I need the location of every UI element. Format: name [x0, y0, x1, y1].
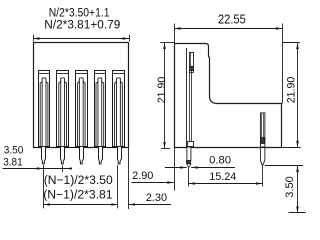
solder pin 3 (front view)	[80, 147, 84, 164]
svg-text:N/2*3.81+0.79: N/2*3.81+0.79	[44, 18, 120, 32]
dimension line (N-1)/2	[43, 204, 117, 206]
extension tick right	[129, 35, 131, 41]
svg-text:2.30: 2.30	[146, 192, 167, 204]
solder pin 1 (front view)	[42, 147, 46, 164]
bottom tick	[282, 147, 301, 149]
extension line body right edge	[128, 148, 130, 210]
right wave-solder pin (side view)	[260, 113, 265, 147]
dimension line	[297, 43, 299, 148]
svg-text:3.50: 3.50	[284, 176, 296, 197]
pole slot 4	[95, 71, 106, 147]
contact base block	[188, 142, 194, 147]
svg-text:(N−1)/2*3.50: (N−1)/2*3.50	[44, 173, 113, 187]
internal contact (left, upper)	[186, 48, 188, 147]
solder pin 4 (front view)	[99, 147, 103, 164]
top tick	[283, 42, 300, 44]
contact crimp block	[190, 67, 194, 71]
solder pin 5 (front view)	[118, 147, 122, 164]
bottom tick	[289, 212, 306, 214]
contact beam 4	[98, 78, 102, 147]
svg-text:21.90: 21.90	[156, 77, 168, 104]
top tick	[265, 165, 303, 167]
extension tick left	[33, 35, 35, 41]
contact beam 2	[61, 78, 65, 147]
svg-text:(N−1)/2*3.81: (N−1)/2*3.81	[43, 187, 113, 201]
svg-text:3.81: 3.81	[3, 157, 23, 169]
dimension line	[174, 28, 282, 30]
pole slot 3	[76, 71, 88, 147]
solder pin 2 (front view)	[61, 147, 65, 164]
tick at pin 2 center	[62, 165, 64, 171]
left solder pin (side view)	[187, 147, 191, 161]
extension line side body left edge	[174, 147, 176, 191]
contact strip right	[191, 71, 193, 142]
dimension line	[33, 38, 129, 40]
svg-text:21.90: 21.90	[286, 77, 298, 104]
svg-text:2.90: 2.90	[132, 170, 153, 182]
extension line pin 5 center	[117, 165, 119, 208]
pin crimp block	[261, 138, 265, 144]
pole slot 2	[57, 71, 69, 147]
dimension 0.80	[165, 167, 187, 169]
side view housing outline	[175, 44, 282, 148]
extension left	[174, 24, 176, 44]
contact beam 5	[117, 78, 121, 147]
leader line 2.30	[129, 204, 171, 206]
svg-text:22.55: 22.55	[218, 12, 246, 27]
pin kink block	[187, 161, 191, 164]
front view housing body	[34, 43, 129, 148]
contact beam 3	[79, 78, 83, 147]
dimension line	[297, 166, 299, 213]
leader line to pin pitch	[3, 168, 73, 170]
dimension line	[164, 43, 166, 149]
bottom tick	[161, 148, 170, 150]
dimension 15.24	[189, 183, 263, 185]
leader line 2.90	[132, 182, 174, 184]
extension line pin 1 center	[43, 165, 45, 208]
top tick	[160, 42, 174, 44]
svg-text:3.50: 3.50	[4, 144, 24, 156]
contact beam 1	[42, 78, 46, 147]
extension from left pin	[188, 167, 190, 187]
extension right	[282, 24, 284, 104]
extension from right pin	[262, 165, 264, 187]
svg-text:0.80: 0.80	[209, 155, 231, 167]
pole slot 1	[39, 71, 50, 147]
pole slot 5	[113, 71, 125, 147]
contact strip left	[189, 71, 191, 142]
svg-text:15.24: 15.24	[209, 171, 236, 183]
